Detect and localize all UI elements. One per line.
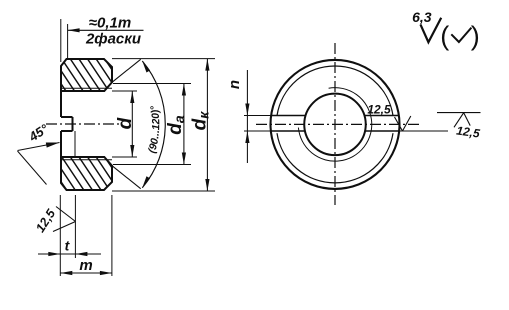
slot upper edge extension bar [437,112,481,114]
dK extension line top [112,58,215,60]
thread major dia thin line (top) [61,87,112,89]
label t [65,238,71,254]
label 2 faski [85,31,141,48]
alt roughness check [451,28,471,42]
roughness mark 12,5 (slot face) [33,206,75,235]
label dK [190,111,212,131]
chamfer leader line [68,28,144,32]
slot upper edge [271,115,399,117]
svg-text:(: ( [440,21,449,51]
svg-text:12,5: 12,5 [367,103,391,117]
outer circle dK [271,60,400,189]
thread thin arc [298,88,371,162]
dK dimension line [205,59,209,191]
d extension line top [112,90,137,92]
n extension line upper [244,115,272,117]
m dimension line [60,271,112,275]
label m [79,257,92,274]
nut section upper half (hatched) [0,50,209,100]
d extension line bottom [112,156,137,158]
svg-text:): ) [471,21,480,51]
svg-text:n: n [226,80,243,89]
svg-text:d: d [115,117,136,129]
d dimension line [130,91,134,157]
45 deg leader [18,143,60,151]
face slot (depth t) in section [61,117,73,131]
thread major dia thin line (bottom) [61,159,112,161]
nut section lower half (hatched) [0,148,209,198]
slot bottom projection line [74,131,76,156]
t dimension line [38,252,101,256]
left face edge segments [60,91,62,157]
label 45 deg [25,121,51,145]
slot depth extension line [74,195,76,258]
general roughness check [421,18,442,43]
slot lower edge [271,130,399,132]
countersink angle arc (90..120) [142,61,165,188]
parenthesis close [471,21,480,51]
da dimension line [182,84,186,165]
label (90...120) deg [137,64,162,185]
countersink edge ray (top) [112,59,141,82]
roughness mark 12,5 (slot lower) [367,103,410,132]
svg-text:6,3: 6,3 [412,9,432,25]
label 6,3 [412,9,432,25]
label n [226,80,243,89]
leader tail line [18,151,47,185]
n extension line lower [244,130,272,132]
svg-text:≈0,1m: ≈0,1m [89,15,131,32]
da extension line bottom [113,164,191,166]
chamfer circle (upper arc) [277,66,393,116]
label ~0,1m [89,15,131,32]
bore circle [304,94,366,155]
parenthesis open [440,21,449,51]
vertical centerline [334,43,336,205]
da extension line top [113,83,191,85]
svg-text:2фаски: 2фаски [85,31,141,48]
left face extension line [59,195,61,276]
horizontal centerline [256,123,419,125]
axis centerline of nut [46,123,122,125]
dK extension line bottom [112,190,215,192]
roughness mark 12,5 (slot upper) [454,113,481,141]
svg-text:m: m [79,257,92,274]
countersink edge ray (bottom) [112,166,141,189]
label da [165,115,187,135]
chamfer extension line 1 [60,19,62,62]
right face extension line [111,195,113,276]
n dimension line [245,70,249,163]
label d [115,117,136,129]
chamfer extension line 2 [67,24,69,58]
slot lower edge extension [399,130,448,132]
chamfer circle (lower arc) [277,133,393,183]
